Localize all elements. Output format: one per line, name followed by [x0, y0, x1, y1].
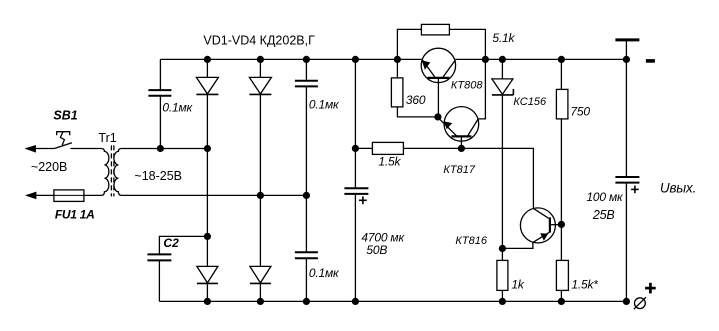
junction: VD3 bottom rail	[204, 298, 211, 305]
wire: C1 bottom lead to secondary top node	[159, 96, 161, 148]
wire: KT816 emitter to zener/1k node	[502, 242, 533, 248]
positive output terminal symbol (circle with slash)	[635, 298, 646, 309]
wire: R2 to KT817 base node and on to KT816 collector	[403, 148, 533, 208]
junction: zener top rail	[499, 56, 506, 63]
junction: KT817 base at 1.5k row	[458, 145, 465, 152]
wire: R5 bottom lead to bottom rail	[501, 290, 503, 301]
junction: VD1 top rail	[204, 56, 211, 63]
capacitor 4700мк 50В plates	[344, 187, 368, 189]
wire: C4 bottom lead to bottom rail	[305, 259, 307, 302]
junction: secondary top at VD1 column	[204, 145, 211, 152]
svg-text:VD1-VD4 КД202В,Г: VD1-VD4 КД202В,Г	[203, 33, 315, 47]
capacitor C2 plates	[147, 253, 171, 255]
wire: VD1 top lead	[206, 59, 208, 77]
diode VD3	[197, 266, 218, 283]
junction: R6 bottom rail	[558, 298, 565, 305]
KT816 emitter arrow	[540, 233, 548, 241]
resistor R3 5.1k	[421, 24, 449, 35]
junction: 4700мк column at 1.5k row	[352, 145, 359, 152]
wire: transformer secondary top lead to bridge	[121, 148, 207, 150]
wire: R3 right lead down to rail node	[449, 29, 485, 59]
svg-text:0.1мк: 0.1мк	[162, 100, 193, 114]
diode VD2	[249, 77, 271, 94]
wire: VD2 cathode down through AC node to VD4	[259, 94, 261, 266]
wire: VD1 cathode down through AC node to VD3	[206, 94, 208, 266]
transistor VT1 KT808 body	[421, 48, 455, 82]
svg-text:SB1: SB1	[53, 108, 77, 122]
capacitor C1 0.1мк plates	[148, 89, 171, 91]
transistor VT3 KT816 body	[520, 208, 555, 243]
transformer Tr1 primary winding	[101, 149, 109, 196]
resistor R5 1k	[497, 260, 508, 290]
polarity plus mark of C5	[631, 188, 639, 190]
wire: arrow to fuse	[27, 194, 54, 196]
wire: C2 bottom lead to bottom rail	[158, 261, 160, 301]
svg-text:КТ808: КТ808	[451, 79, 483, 91]
junction: VD2 top rail	[257, 56, 264, 63]
svg-text:КТ816: КТ816	[455, 235, 487, 247]
wire: top negative rail, right segment	[455, 58, 626, 60]
svg-text:25В: 25В	[592, 208, 615, 222]
svg-text:КТ817: КТ817	[443, 164, 475, 176]
junction: KT816 base on R4/R6 column	[558, 221, 565, 228]
transformer Tr1 core	[110, 145, 112, 196]
junction: C1 at secondary top	[157, 145, 164, 152]
wire: arrow to switch SB1	[27, 148, 54, 150]
switch SB1 push-button actuator	[57, 132, 70, 136]
mains input arrow (top, ~220В line)	[24, 145, 36, 153]
svg-text:1k: 1k	[511, 277, 524, 291]
svg-text:1.5k: 1.5k	[378, 154, 401, 168]
junction: secondary bottom at VD2 column	[257, 192, 264, 199]
wire: resistor R1 360 top lead	[396, 59, 398, 78]
junction: 4700мк top rail	[352, 56, 359, 63]
junction: R1/R3 top rail	[394, 56, 401, 63]
KT808 base bar	[427, 77, 449, 79]
svg-text:~220В: ~220В	[31, 160, 68, 174]
svg-text:FU1 1A: FU1 1A	[55, 207, 95, 221]
resistor R1 360	[391, 78, 403, 107]
polarity plus mark of 4700мк	[359, 199, 367, 201]
wire: R4 bottom lead down to R6	[560, 119, 562, 261]
wire: KT808 base lead down	[437, 78, 439, 117]
svg-text:1.5k*: 1.5k*	[571, 277, 598, 291]
diode VD4	[250, 266, 271, 283]
junction: secondary bottom at C3/C4 column	[303, 192, 310, 199]
diode VD1	[196, 77, 218, 94]
wire: C2 top lead from VD1 column node	[159, 236, 207, 254]
junction: zener / R5 / KT816 emitter	[499, 245, 506, 252]
junction: 4700мк bottom rail	[352, 298, 359, 305]
plus sign at positive output	[645, 287, 656, 290]
negative output terminal bar	[615, 38, 639, 41]
wire: 4700мк bottom lead to bottom rail	[354, 195, 356, 302]
resistor R4 750	[556, 89, 568, 119]
svg-text:0.1мк: 0.1мк	[309, 97, 340, 111]
wire: switch to transformer primary top	[70, 148, 101, 150]
KT816 base bar	[549, 217, 551, 232]
wire: filter node to resistor R2 1.5k	[355, 147, 372, 149]
capacitor C3 0.1мк plates	[295, 80, 318, 82]
svg-text:5.1k: 5.1k	[492, 31, 515, 45]
wire: R6 bottom lead to bottom rail	[560, 290, 562, 301]
wire: transformer secondary bottom lead to bridge	[121, 194, 306, 196]
junction: output column top rail	[623, 56, 630, 63]
svg-text:50В: 50В	[366, 243, 387, 257]
minus sign	[646, 59, 655, 63]
wire: KT817 base lead down to 1.5k row	[460, 136, 462, 148]
wire: KT816 base to 750/1.5k* column	[550, 224, 562, 226]
wire: KT817 collector up to top rail node	[478, 59, 486, 119]
KT808 collector lead	[442, 60, 455, 78]
resistor R6 1.5k*	[556, 260, 568, 290]
wire: resistor R4 750 top lead	[560, 59, 562, 89]
svg-text:Uвых.: Uвых.	[660, 180, 696, 195]
wire: output column lower segment	[625, 183, 627, 301]
KT817 base bar	[451, 135, 471, 137]
mains input arrow (bottom, ~220В line)	[25, 192, 37, 200]
wire: zener VD5 top lead	[501, 59, 503, 79]
junction: R5 bottom rail	[499, 298, 506, 305]
wire: VD3 cathode to bottom rail	[206, 283, 208, 301]
junction: R3/KT817 collector top rail	[482, 56, 489, 63]
svg-text:100 мк: 100 мк	[586, 190, 624, 204]
KT808 emitter lead	[423, 60, 436, 78]
zener diode VD5 КС156	[492, 79, 513, 95]
KT808 emitter arrow	[422, 60, 431, 69]
KT817 collector lead	[467, 119, 478, 136]
KT816 emitter lead	[533, 232, 550, 243]
capacitor C5 100мк 25В plates	[615, 176, 639, 178]
wire: filter capacitor 4700мк top lead	[354, 59, 356, 187]
wire: C3 bottom lead down through AC node to C4	[305, 87, 307, 252]
fuse FU1	[54, 190, 84, 202]
resistor R2 1.5k	[372, 142, 403, 154]
wire: VD2 top lead	[259, 59, 261, 77]
switch SB1 blade	[54, 143, 72, 149]
svg-text:360: 360	[406, 93, 426, 107]
svg-text:Tr1: Tr1	[98, 131, 116, 145]
capacitor C1 0.1мк (top left), top lead	[159, 59, 161, 89]
transistor VT2 KT817 body	[444, 107, 479, 142]
svg-text:C2: C2	[163, 236, 179, 250]
junction: R4 top rail	[558, 56, 565, 63]
wire: top negative rail, left segment	[160, 58, 421, 60]
wire: VD4 cathode to bottom rail	[259, 283, 261, 301]
junction: C2 tap on VD1 column	[204, 233, 211, 240]
wire: bottom positive rail	[159, 300, 626, 302]
wire: zener cathode line down to divider node	[501, 95, 503, 261]
wire: output column upper segment	[625, 40, 627, 177]
junction: C3 top rail	[303, 56, 310, 63]
KT817 emitter lead	[438, 118, 457, 136]
svg-text:КС156: КС156	[513, 96, 547, 108]
wire: R1 bottom lead to KT808 base node	[397, 107, 438, 117]
wire: fuse to transformer primary bottom	[84, 194, 102, 196]
KT816 collector lead	[533, 208, 549, 218]
junction: C4 bottom rail	[303, 298, 310, 305]
capacitor C4 0.1мк (x=306 bottom) plates	[295, 251, 318, 253]
KT817 emitter arrow	[444, 121, 452, 129]
svg-text:~18-25В: ~18-25В	[134, 169, 182, 183]
junction: KT808 base / R1 / KT817 emitter	[434, 113, 441, 120]
capacitor C3 0.1мк (x=306 top), top lead	[305, 59, 307, 80]
junction: output terminal bottom rail	[623, 298, 630, 305]
transformer Tr1 secondary winding	[114, 149, 122, 196]
junction: VD4 bottom rail	[257, 298, 264, 305]
wire: resistor R3 5.1k left lead	[397, 29, 421, 59]
svg-text:750: 750	[570, 104, 590, 118]
svg-text:0.1мк: 0.1мк	[309, 266, 340, 280]
